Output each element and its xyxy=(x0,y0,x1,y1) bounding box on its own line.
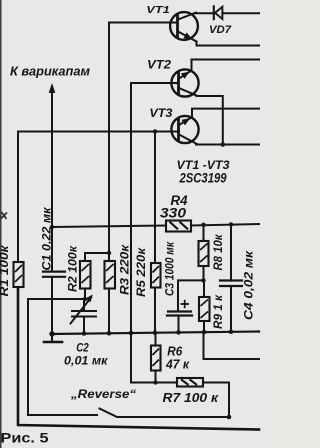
svg-text:47 к: 47 к xyxy=(165,357,190,372)
svg-text:R3 220к: R3 220к xyxy=(120,244,132,295)
svg-text:VD7: VD7 xyxy=(209,24,232,36)
svg-text:C1 0,22 мк: C1 0,22 мк xyxy=(42,206,54,270)
svg-text:R1 100к: R1 100к xyxy=(0,244,11,296)
svg-text:VT2: VT2 xyxy=(147,60,172,72)
svg-text:330: 330 xyxy=(160,205,187,220)
svg-text:R8 10к: R8 10к xyxy=(213,233,225,270)
svg-text:R7 100 к: R7 100 к xyxy=(163,390,220,405)
svg-text:VT1: VT1 xyxy=(146,4,170,16)
svg-text:C2: C2 xyxy=(76,343,89,355)
svg-text:0,01 мк: 0,01 мк xyxy=(64,356,109,368)
svg-text:„Reverse“: „Reverse“ xyxy=(70,387,136,401)
svg-text:К варикапам: К варикапам xyxy=(10,65,90,79)
svg-text:2SC3199: 2SC3199 xyxy=(179,170,227,185)
svg-text:C4 0,02 мк: C4 0,02 мк xyxy=(244,250,256,320)
svg-text:R5 220к: R5 220к xyxy=(136,247,148,297)
svg-text:Рис. 5: Рис. 5 xyxy=(1,429,49,445)
svg-text:VT3: VT3 xyxy=(149,108,173,120)
svg-text:R2 100к: R2 100к xyxy=(68,245,80,292)
svg-text:C3 1000 мк: C3 1000 мк xyxy=(165,241,177,296)
svg-text:R9 1 к: R9 1 к xyxy=(213,294,225,329)
